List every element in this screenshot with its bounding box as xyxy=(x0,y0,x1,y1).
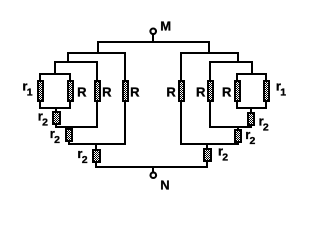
svg-text:1: 1 xyxy=(280,87,286,99)
svg-text:2: 2 xyxy=(222,151,228,163)
svg-text:R: R xyxy=(196,85,206,100)
svg-text:2: 2 xyxy=(54,134,60,146)
svg-text:2: 2 xyxy=(42,116,48,128)
svg-text:R: R xyxy=(130,85,140,100)
svg-text:R: R xyxy=(102,85,112,100)
svg-text:R: R xyxy=(77,85,87,100)
svg-text:M: M xyxy=(160,19,171,34)
svg-text:2: 2 xyxy=(82,154,88,166)
svg-text:R: R xyxy=(222,85,232,100)
svg-text:N: N xyxy=(160,178,169,193)
svg-text:2: 2 xyxy=(263,122,269,134)
svg-text:2: 2 xyxy=(250,135,256,147)
svg-text:R: R xyxy=(166,85,176,100)
svg-text:1: 1 xyxy=(27,87,33,99)
